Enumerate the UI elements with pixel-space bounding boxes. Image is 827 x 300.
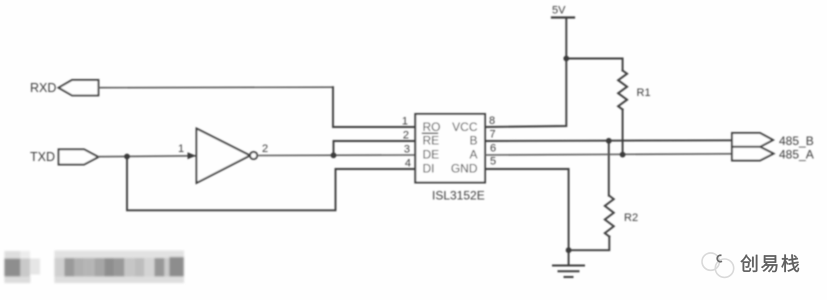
ground symbol (553, 266, 584, 278)
svg-text:3: 3 (404, 144, 410, 156)
svg-text:VCC: VCC (452, 120, 478, 134)
svg-text:7: 7 (490, 129, 496, 141)
svg-text:ISL3152E: ISL3152E (432, 189, 485, 203)
connector RXD (59, 80, 99, 95)
watermark mosaic censored text (4, 251, 184, 284)
wire node B down to R2 (608, 141, 610, 196)
IC U1 ISL3152E body (415, 114, 485, 183)
junction node inverter output (331, 152, 337, 158)
svg-text:6: 6 (490, 143, 496, 155)
wire 5V node to R1 (566, 59, 622, 71)
wire TXD feedback to DI pin4 (127, 157, 415, 211)
svg-text:5V: 5V (552, 5, 566, 17)
logo text char 易 (761, 255, 777, 272)
svg-text:4: 4 (405, 158, 411, 170)
connector 485_B (732, 133, 773, 147)
wire RXD to RO pin1 (98, 86, 333, 89)
svg-text:R1: R1 (637, 87, 651, 99)
svg-text:5: 5 (490, 156, 496, 168)
logo text char 创 (741, 255, 758, 272)
inverter bubble (250, 152, 257, 159)
wire GND pin5 to ground (485, 169, 569, 265)
svg-text:A: A (469, 148, 477, 162)
overline of RE (423, 132, 438, 134)
svg-text:8: 8 (489, 115, 495, 127)
power 5V bar (552, 16, 574, 18)
inverter triangle (197, 129, 251, 184)
junction TXD node (124, 154, 130, 160)
wire TXD to inverter input (98, 155, 196, 158)
logo bird eye/beak (717, 255, 722, 261)
inverter input arrowhead (188, 152, 197, 159)
wire net A (pin6 to 485_A) (485, 154, 732, 155)
junction node A (620, 152, 626, 158)
svg-text:1: 1 (178, 143, 184, 155)
resistor R1 (618, 71, 627, 110)
logo bird icon (702, 253, 734, 277)
connector TXD (59, 149, 99, 164)
wire VCC pin8 to 5V (485, 18, 566, 128)
svg-text:GND: GND (451, 162, 478, 176)
svg-text:TXD: TXD (30, 150, 55, 164)
wire inverter output to DE pin3 (257, 154, 415, 157)
resistor R2 (605, 196, 614, 237)
svg-text:1: 1 (402, 116, 408, 128)
svg-text:RO: RO (423, 120, 441, 134)
junction node B (606, 138, 612, 144)
svg-text:B: B (469, 134, 477, 148)
logo text char 栈 (781, 255, 799, 272)
svg-text:485_B: 485_B (779, 134, 814, 148)
svg-text:DE: DE (423, 148, 440, 162)
connector 485_A (732, 147, 774, 161)
svg-text:RE: RE (423, 134, 440, 148)
svg-text:RXD: RXD (30, 81, 56, 95)
svg-text:485_A: 485_A (779, 148, 814, 162)
svg-text:DI: DI (423, 162, 435, 176)
wire R1 to A net (622, 110, 624, 155)
svg-text:2: 2 (403, 130, 409, 142)
wire R2 to ground node (569, 237, 610, 251)
junction 5V node (563, 56, 569, 62)
junction ground node (566, 247, 572, 253)
wire net B (pin7 to 485_B) (485, 139, 732, 142)
wire node to RE pin2 (334, 141, 416, 155)
svg-text:R2: R2 (624, 212, 638, 224)
svg-text:2: 2 (262, 143, 268, 155)
